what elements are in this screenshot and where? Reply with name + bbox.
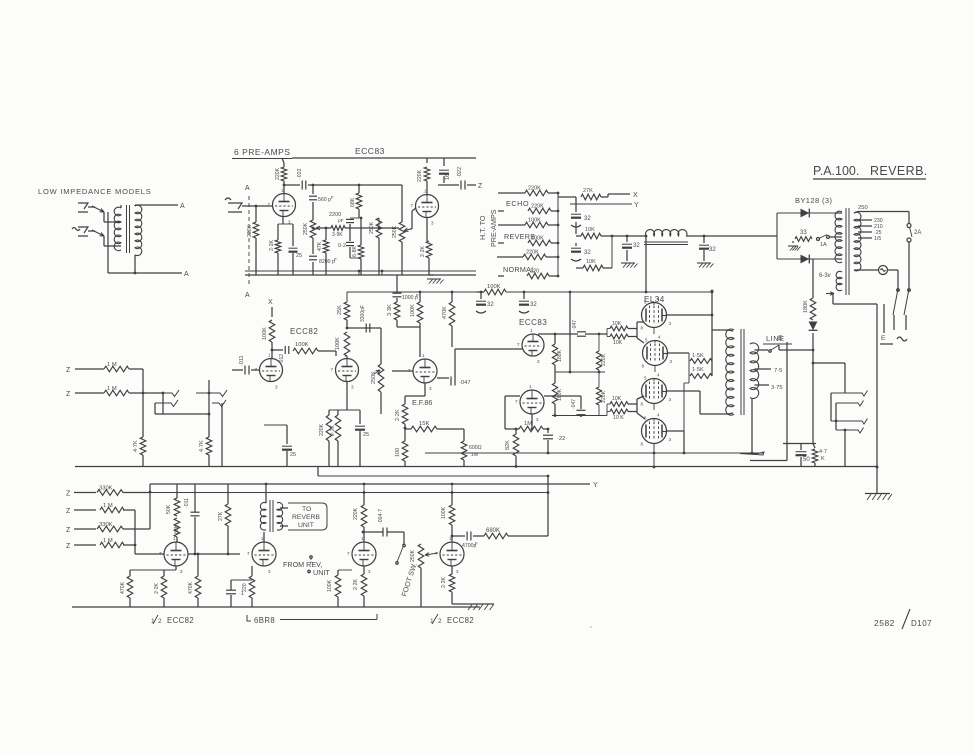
svg-text:25: 25 — [296, 253, 302, 259]
svg-text:K: K — [821, 456, 825, 462]
svg-text:47K: 47K — [317, 241, 323, 251]
svg-text:50K: 50K — [166, 504, 172, 514]
svg-text:·004·7: ·004·7 — [378, 509, 384, 524]
svg-text:2: 2 — [438, 618, 442, 625]
svg-text:100K: 100K — [295, 342, 309, 348]
svg-text:3·75: 3·75 — [771, 385, 783, 391]
svg-text:560 p: 560 p — [318, 197, 331, 203]
svg-text:LINE: LINE — [766, 334, 785, 343]
svg-text:600Ω: 600Ω — [469, 445, 482, 451]
svg-text:Y: Y — [634, 202, 639, 209]
svg-text:2·2K: 2·2K — [441, 577, 447, 588]
svg-text:2·2K: 2·2K — [420, 246, 426, 257]
svg-text:100: 100 — [395, 448, 401, 457]
svg-text:·022: ·022 — [457, 167, 463, 178]
svg-text:Z: Z — [66, 391, 71, 398]
svg-text:·011: ·011 — [239, 355, 245, 366]
svg-text:·047: ·047 — [459, 380, 471, 386]
svg-text:H.T. TO: H.T. TO — [478, 215, 487, 240]
svg-text:16: 16 — [445, 174, 451, 180]
svg-text:·1: ·1 — [239, 591, 244, 597]
svg-text:4·7K: 4·7K — [199, 440, 205, 452]
svg-text:Z: Z — [66, 367, 71, 374]
svg-text:25: 25 — [363, 432, 369, 438]
svg-text:220K: 220K — [417, 169, 423, 182]
svg-text:REVERB.: REVERB. — [870, 164, 928, 178]
svg-text:6 PRE-AMPS: 6 PRE-AMPS — [234, 147, 291, 157]
svg-text:2: 2 — [158, 618, 162, 625]
svg-text:250K: 250K — [392, 225, 398, 238]
svg-text:TO: TO — [302, 506, 311, 513]
svg-text:PRE-AMPS: PRE-AMPS — [489, 209, 498, 247]
svg-text:A: A — [245, 292, 250, 299]
svg-text:32: 32 — [530, 302, 537, 308]
svg-text:P.A.100.: P.A.100. — [813, 164, 859, 178]
svg-text:10K: 10K — [612, 396, 622, 402]
svg-text:REVERB: REVERB — [292, 514, 320, 521]
svg-text:2·2K: 2·2K — [154, 583, 160, 594]
svg-text:ECC82: ECC82 — [167, 616, 194, 625]
svg-text:25: 25 — [290, 452, 296, 458]
svg-text:UNIT: UNIT — [298, 522, 314, 529]
svg-text:6BR8: 6BR8 — [254, 616, 275, 625]
svg-text:UNIT: UNIT — [313, 568, 330, 577]
svg-text:ECC83: ECC83 — [519, 318, 547, 327]
svg-text:Y: Y — [593, 482, 598, 489]
svg-text:250K: 250K — [369, 221, 375, 234]
svg-text:250K: 250K — [303, 222, 309, 235]
svg-text:2200: 2200 — [329, 212, 341, 218]
svg-text:32: 32 — [633, 243, 640, 249]
svg-text:A: A — [180, 203, 185, 210]
svg-text:180K: 180K — [557, 388, 563, 401]
svg-text:4·7K: 4·7K — [133, 440, 139, 452]
svg-text:10K: 10K — [586, 259, 596, 265]
svg-text:3·9K: 3·9K — [332, 232, 343, 238]
svg-text:27K: 27K — [218, 511, 224, 521]
svg-text:X: X — [268, 299, 273, 306]
svg-text:100K: 100K — [441, 506, 447, 519]
svg-text:10K: 10K — [612, 321, 622, 327]
svg-text:250: 250 — [858, 205, 868, 211]
svg-text:7·5: 7·5 — [774, 368, 782, 374]
svg-text:·011: ·011 — [184, 498, 190, 508]
svg-text:Z: Z — [66, 527, 71, 534]
svg-text:220K: 220K — [353, 507, 359, 520]
svg-text:220K: 220K — [601, 390, 607, 403]
svg-text:Z: Z — [66, 543, 71, 550]
svg-text:F: F — [334, 257, 337, 262]
svg-text:220K: 220K — [275, 167, 281, 180]
svg-text:10 K: 10 K — [613, 415, 624, 421]
svg-text:180K: 180K — [803, 300, 809, 313]
svg-text:220K: 220K — [601, 353, 607, 366]
svg-text:50: 50 — [803, 457, 810, 463]
svg-text:ECHO: ECHO — [506, 199, 529, 208]
svg-text:2A: 2A — [914, 230, 921, 236]
svg-text:·047: ·047 — [571, 399, 577, 409]
svg-text:2·2K: 2·2K — [353, 579, 359, 590]
svg-text:F: F — [475, 541, 478, 546]
svg-text:2·2K: 2·2K — [395, 409, 401, 421]
svg-text:32: 32 — [584, 216, 591, 222]
svg-text:Z: Z — [66, 491, 71, 498]
svg-text:LOW IMPEDANCE MODELS: LOW IMPEDANCE MODELS — [38, 187, 152, 196]
svg-text:pF: pF — [338, 218, 344, 224]
svg-text:·022: ·022 — [297, 169, 303, 179]
svg-text:32: 32 — [709, 247, 716, 253]
svg-text:180K: 180K — [557, 349, 563, 362]
svg-text:A: A — [184, 271, 189, 278]
svg-text:470K: 470K — [120, 581, 126, 594]
svg-text:6·8K: 6·8K — [352, 246, 358, 257]
svg-text:470K: 470K — [442, 306, 448, 319]
svg-text:Z: Z — [478, 183, 483, 190]
svg-text:82K: 82K — [505, 440, 511, 450]
svg-text:8200 p: 8200 p — [319, 259, 335, 265]
svg-text:1·5K: 1·5K — [692, 367, 704, 373]
svg-text:68K: 68K — [350, 197, 356, 207]
svg-text:100K: 100K — [262, 327, 268, 340]
svg-text:32: 32 — [487, 302, 494, 308]
svg-text:ECC82: ECC82 — [447, 616, 474, 625]
svg-text:BY128 (3): BY128 (3) — [795, 196, 832, 205]
svg-text:10K: 10K — [613, 340, 623, 346]
svg-text:3·3K: 3·3K — [387, 304, 393, 316]
svg-text:33: 33 — [800, 230, 807, 236]
svg-text:32: 32 — [584, 250, 591, 256]
svg-text:25K: 25K — [337, 305, 343, 315]
svg-text:470K: 470K — [188, 581, 194, 594]
svg-text:ECC82: ECC82 — [290, 327, 318, 336]
svg-text:6-3v: 6-3v — [819, 273, 831, 279]
svg-text:1/5: 1/5 — [874, 236, 881, 242]
svg-text:X: X — [633, 192, 638, 199]
svg-text:E: E — [881, 335, 886, 342]
svg-text:ECC83: ECC83 — [355, 146, 385, 156]
svg-text:2·2K: 2·2K — [330, 425, 336, 436]
svg-text:2·2K: 2·2K — [269, 240, 275, 251]
svg-text:·22: ·22 — [557, 436, 565, 442]
svg-text:F: F — [331, 195, 334, 200]
svg-text:3300pF: 3300pF — [360, 305, 366, 322]
svg-text:·047: ·047 — [572, 320, 578, 330]
svg-text:100K: 100K — [335, 337, 341, 350]
svg-text:1A: 1A — [820, 242, 827, 248]
svg-text:0·2: 0·2 — [338, 243, 346, 249]
svg-text:F: F — [416, 293, 419, 299]
svg-text:10K: 10K — [585, 227, 595, 233]
svg-text:220K: 220K — [247, 224, 253, 237]
svg-text:100K: 100K — [327, 579, 333, 592]
svg-text:4·7: 4·7 — [819, 449, 827, 455]
svg-text:D107: D107 — [911, 619, 932, 628]
svg-text:E.F.86: E.F.86 — [412, 398, 432, 407]
svg-text:220K: 220K — [319, 423, 325, 436]
svg-text:250K: 250K — [410, 549, 416, 562]
svg-text:·012: ·012 — [279, 354, 285, 364]
svg-text:100K: 100K — [410, 304, 416, 317]
svg-text:2582: 2582 — [874, 618, 895, 628]
svg-text:Z: Z — [66, 508, 71, 515]
svg-text:A: A — [245, 185, 250, 192]
